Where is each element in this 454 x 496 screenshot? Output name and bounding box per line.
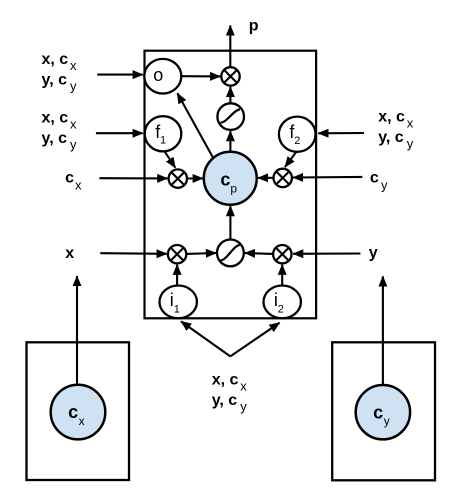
svg-text:y, c: y, c	[212, 392, 238, 409]
svg-text:y: y	[70, 137, 77, 152]
svg-text:x, c: x, c	[378, 108, 405, 125]
wire: p output arrow	[229, 26, 231, 68]
svg-text:x, c: x, c	[42, 51, 69, 68]
wire: cp to o diagonal	[177, 93, 213, 158]
label x,cx y,cy mid-left block	[42, 109, 78, 152]
svg-text:y: y	[240, 399, 247, 414]
wire: y input to lower-right multiply	[293, 252, 360, 254]
svg-text:c: c	[370, 170, 379, 187]
svg-text:y, c: y, c	[378, 129, 404, 146]
svg-text:2: 2	[278, 304, 284, 316]
svg-text:x: x	[407, 116, 414, 131]
svg-text:y, c: y, c	[42, 71, 68, 88]
svg-text:p: p	[249, 18, 259, 35]
svg-text:x: x	[70, 117, 77, 132]
wire: cx input to left multiply	[99, 177, 167, 179]
wire: external input to o	[97, 74, 143, 76]
svg-text:x: x	[240, 379, 247, 394]
wire: cy child up arrow	[382, 276, 384, 385]
wire: cx child up arrow	[76, 276, 78, 385]
svg-text:x: x	[79, 414, 85, 428]
squash node upper	[217, 103, 244, 130]
svg-text:o: o	[153, 65, 163, 85]
wire: upper squash to top multiply	[229, 87, 231, 103]
svg-text:c: c	[373, 402, 383, 422]
bottom-left child box	[27, 342, 130, 480]
wire: cp to upper squash	[229, 131, 231, 152]
wire: right multiply to cp	[258, 177, 274, 179]
wire: bottom V to i1	[181, 321, 230, 356]
svg-text:1: 1	[174, 304, 180, 316]
label cy input	[370, 170, 388, 193]
child state cy	[356, 385, 410, 439]
svg-text:x: x	[70, 58, 77, 73]
label cx input	[65, 170, 82, 193]
multiply node right	[274, 169, 292, 187]
svg-text:p: p	[230, 182, 237, 196]
svg-text:y: y	[369, 245, 378, 262]
wire: external input to f1	[96, 132, 143, 134]
gate f2	[279, 117, 316, 152]
wire: left multiply to cp	[187, 177, 203, 179]
squash node lower	[217, 240, 244, 267]
svg-text:y: y	[384, 414, 390, 428]
svg-text:c: c	[220, 169, 230, 189]
multiply node top	[221, 67, 239, 85]
wire: x input to lower-left multiply	[100, 252, 166, 255]
wire: i2 to lower-right multiply	[281, 265, 283, 286]
cell state cp	[204, 152, 257, 205]
bottom-right child box	[332, 342, 435, 480]
main cell box	[145, 51, 317, 319]
svg-text:y: y	[407, 136, 414, 151]
wire: o to top multiply	[181, 75, 220, 77]
svg-text:x: x	[75, 177, 82, 192]
gate i1	[160, 286, 197, 319]
svg-text:x: x	[65, 245, 74, 262]
wire: f1 to left multiply	[164, 151, 175, 168]
wire: bottom V to i2	[230, 323, 279, 357]
gate o	[144, 59, 181, 94]
svg-text:1: 1	[160, 135, 166, 147]
svg-text:c: c	[65, 170, 74, 187]
wire: f2 to right multiply	[285, 152, 296, 167]
multiply node lower-left	[168, 245, 186, 263]
wire: lower squash to cp	[229, 206, 231, 239]
gate f1	[145, 116, 182, 151]
svg-text:y: y	[70, 79, 77, 94]
wire: lower-left multiply to lower squash	[186, 252, 216, 255]
wire: i1 to lower-left multiply	[176, 265, 178, 286]
wire: cy input to right multiply	[293, 176, 362, 179]
svg-text:y, c: y, c	[42, 130, 68, 147]
label x,cx y,cy bottom block	[212, 371, 248, 414]
svg-text:x, c: x, c	[42, 109, 69, 126]
wire: external input to f2	[318, 132, 364, 134]
label x,cx y,cy right block	[378, 108, 414, 151]
svg-text:c: c	[68, 402, 78, 422]
label x,cx y,cy top-left block	[42, 51, 78, 94]
svg-text:2: 2	[294, 135, 300, 147]
multiply node lower-right	[273, 245, 291, 263]
gate i2	[264, 286, 301, 319]
svg-text:y: y	[381, 177, 388, 192]
wire: lower-right multiply to lower squash	[245, 252, 273, 255]
child state cx	[51, 385, 106, 440]
multiply node left	[169, 169, 187, 187]
svg-text:x, c: x, c	[212, 371, 239, 388]
